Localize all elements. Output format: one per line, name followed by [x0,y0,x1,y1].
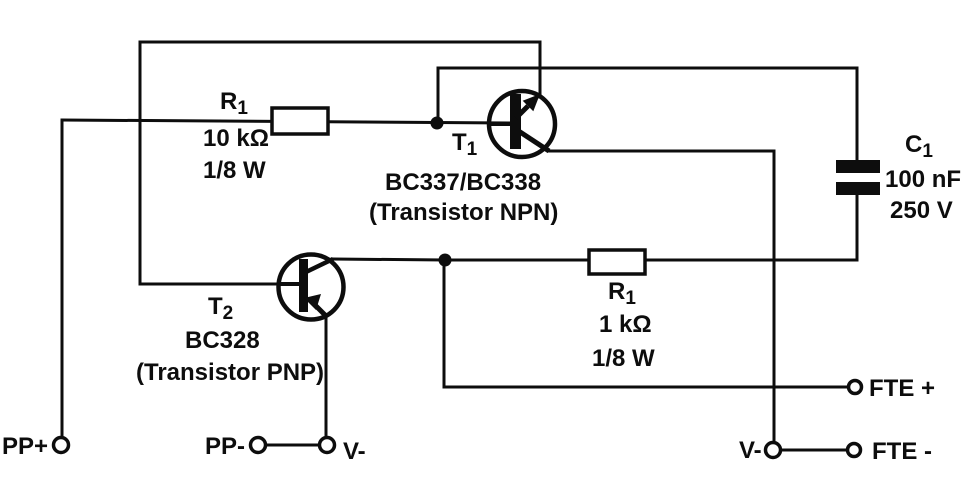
svg-text:1/8 W: 1/8 W [203,157,266,184]
wire horizontal (base node to C1 top) [438,67,857,70]
terminal V- left [320,438,335,453]
wire C1 top vertical [856,68,859,161]
svg-text:BC328: BC328 [185,327,260,354]
wire left vertical to PP+ [61,120,64,438]
wire T2 emitter down to V- [325,316,328,438]
resistor R1 1k body [589,250,645,274]
wire T2 base horizontal [140,283,280,286]
svg-text:(Transistor NPN): (Transistor NPN) [369,199,558,226]
transistor T1 (NPN BC337/BC338) [489,91,555,157]
svg-text:100 nF: 100 nF [885,166,961,193]
svg-text:FTE -: FTE - [872,438,932,465]
wire T1 base (PP+ to T1) [62,120,510,123]
terminal V- right [766,443,781,458]
wire V- to FTE- [781,449,848,452]
svg-text:1 kΩ: 1 kΩ [599,311,652,338]
transistor T2 (PNP BC328) [279,255,344,320]
wire T1 emitter horizontal [549,150,774,153]
svg-text:PP+: PP+ [2,433,48,460]
wire node to R1 1k to C1 bottom [444,195,857,260]
wire vertical x=140 (top loop to T2 base) [139,42,142,284]
wire T2 collector to node [333,259,444,260]
junction node at T1 base [431,117,444,130]
svg-text:BC337/BC338: BC337/BC338 [385,169,541,196]
terminal FTE+ [849,381,862,394]
resistor R1 10k body [272,108,328,134]
wire vertical down to T1 collector [539,42,542,97]
capacitor C1 plates [836,160,880,173]
terminal PP- [251,438,266,453]
wire node down to FTE+ [444,260,849,387]
terminal PP+ [54,438,69,453]
svg-text:V-: V- [739,437,762,464]
wire right vertical to V- [773,151,776,443]
svg-text:250 V: 250 V [890,197,953,224]
svg-text:V-: V- [343,438,366,465]
svg-text:1/8 W: 1/8 W [592,345,655,372]
svg-text:(Transistor PNP): (Transistor PNP) [136,359,324,386]
terminal FTE- [848,444,861,457]
junction node at T2 collector / R1 / FTE+ [439,254,452,267]
wire PP- to V- [266,444,319,447]
svg-text:PP-: PP- [205,433,245,460]
svg-text:10 kΩ: 10 kΩ [203,125,269,152]
wire vertical from base node up [437,68,440,122]
wire top horizontal (T1 collector loop) [140,41,540,44]
svg-text:FTE +: FTE + [869,375,935,402]
